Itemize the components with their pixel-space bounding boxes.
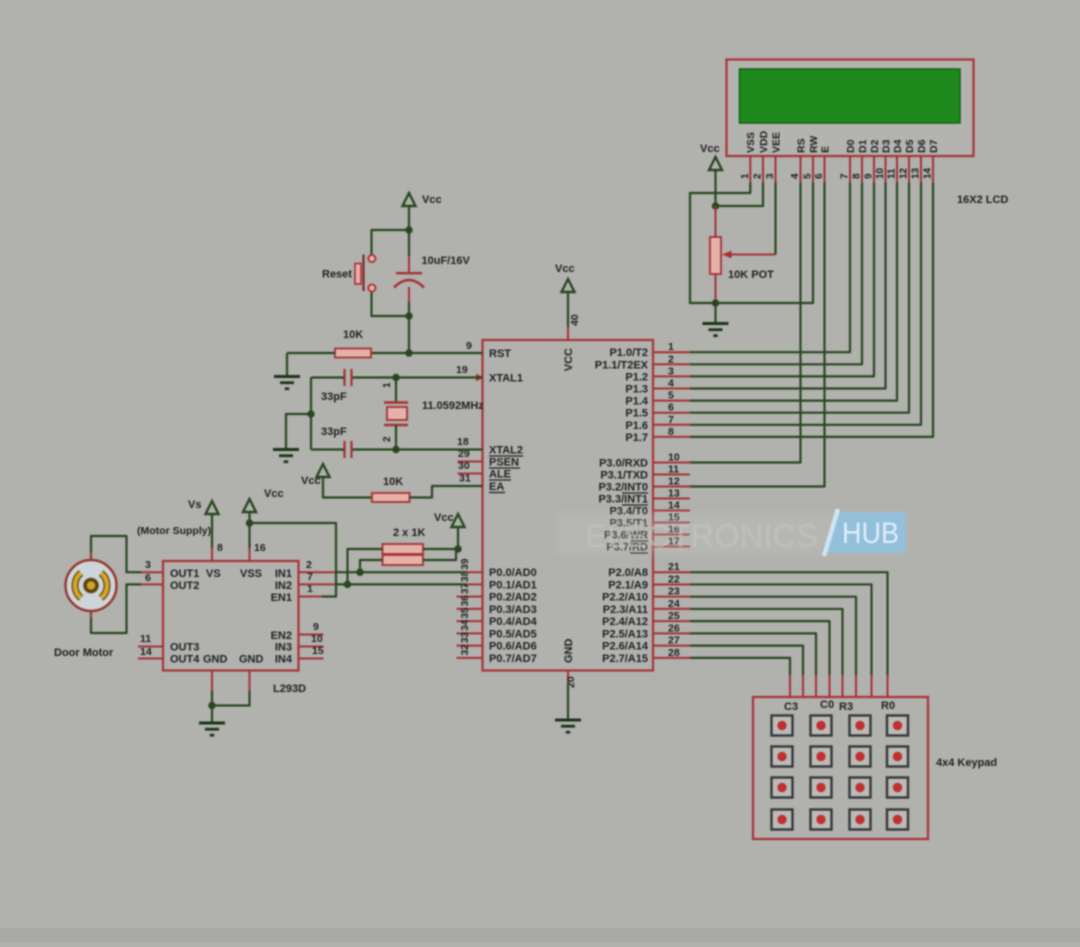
svg-text:6: 6 (668, 402, 674, 414)
svg-text:Vcc: Vcc (434, 512, 454, 524)
node XTAL2 junction (392, 446, 399, 453)
wire caps junction to ground (286, 414, 311, 448)
wire VEE pin 3 to wiper (774, 183, 776, 255)
U1 pin 33 P0.6/AD6 (457, 645, 483, 647)
keypad button row 2 col 1 (772, 747, 793, 767)
svg-text:P2.4/A12: P2.4/A12 (602, 616, 648, 628)
svg-text:34: 34 (460, 619, 471, 631)
U2 pin 9 EN2 stub (299, 634, 324, 636)
wire P2.1/A9 to keypad (690, 584, 872, 675)
svg-text:2 x 1K: 2 x 1K (393, 527, 425, 539)
svg-text:8: 8 (852, 173, 863, 179)
U1 pin 2 P1.1/T2EX (653, 363, 690, 365)
keypad pin stub 7 (802, 675, 804, 697)
svg-text:6: 6 (145, 572, 151, 584)
svg-text:(Motor Supply): (Motor Supply) (137, 525, 211, 537)
U1 pin 29 PSEN stub (458, 461, 483, 463)
U1 pin 36 P0.3/AD3 (457, 608, 483, 610)
svg-text:10uF/16V: 10uF/16V (422, 255, 471, 267)
LCD pin 4 RS (800, 156, 802, 183)
wire P1.5 to LCD D5 (690, 183, 909, 413)
LCD pin 6 E (824, 156, 826, 183)
wire P1.7 to LCD D7 (690, 183, 933, 437)
motor driver U2 L293D body (163, 561, 299, 671)
svg-text:P0.6/AD6: P0.6/AD6 (489, 641, 537, 653)
svg-text:10: 10 (668, 452, 680, 464)
U2 pin 6 OUT2 stub (141, 583, 163, 585)
U1 pin 4 P1.3 (653, 388, 690, 390)
svg-text:19: 19 (456, 364, 468, 376)
wire GND pins join (211, 691, 213, 706)
keypad button row 4 col 1 (772, 810, 793, 830)
wire VSS to Vcc node (248, 512, 250, 548)
svg-text:D2: D2 (869, 139, 881, 153)
keypad pin stub 2 (871, 675, 873, 697)
svg-text:5: 5 (803, 173, 814, 179)
node reset bottom junction (405, 312, 412, 319)
svg-text:P1.4: P1.4 (625, 396, 649, 408)
svg-text:P0.5/AD5: P0.5/AD5 (489, 628, 537, 640)
svg-text:35: 35 (460, 607, 471, 619)
wire R3 right lead (423, 548, 458, 550)
node POT bottom junction (712, 299, 719, 306)
svg-text:P1.0/T2: P1.0/T2 (609, 347, 648, 359)
svg-text:P2.7/A15: P2.7/A15 (602, 653, 648, 665)
wire P2.6/A14 to keypad (690, 646, 803, 675)
svg-text:10K: 10K (343, 329, 363, 341)
U1 pin 26 P2.5/A13 (653, 632, 690, 634)
svg-text:2: 2 (668, 353, 674, 365)
wire P1.0/T2 to LCD D0 (690, 183, 850, 353)
U1 pin 28 P2.7/A15 (653, 657, 690, 659)
svg-text:VS: VS (206, 568, 221, 580)
svg-text:C3: C3 (784, 701, 798, 713)
svg-text:Reset: Reset (322, 269, 352, 281)
wire P2.5/A13 to keypad (690, 633, 816, 675)
svg-text:18: 18 (457, 436, 469, 448)
svg-text:D7: D7 (928, 139, 940, 153)
svg-text:8: 8 (668, 426, 674, 438)
svg-text:7: 7 (668, 414, 674, 426)
capacitor C2 33pF (352, 376, 396, 378)
U1 pin 32 P0.7/AD7 (457, 657, 483, 659)
U1 pin 24 P2.3/A11 (653, 608, 690, 610)
node VSS Vcc junction (246, 519, 253, 526)
svg-text:ELECTRONICS: ELECTRONICS (585, 518, 818, 554)
svg-text:P3.3/INT1: P3.3/INT1 (598, 494, 648, 506)
8051 microcontroller U1 body (483, 340, 654, 671)
svg-text:IN1: IN1 (275, 568, 292, 580)
U2 pin 11 OUT3 stub (138, 646, 163, 648)
svg-text:P2.5/A13: P2.5/A13 (602, 628, 648, 640)
svg-text:P0.3/AD3: P0.3/AD3 (489, 604, 537, 616)
U1 pin 16 P3.6/WR (653, 534, 690, 536)
svg-text:39: 39 (460, 558, 471, 570)
resistor R3 1K (383, 544, 424, 554)
svg-text:RST: RST (489, 348, 511, 360)
keypad button row 3 col 4 (887, 778, 908, 798)
wire GND net down (567, 683, 569, 719)
U1 pin 37 P0.2/AD2 (457, 596, 483, 598)
U1 pin 10 P3.0/RXD (653, 462, 690, 464)
svg-text:GND: GND (239, 654, 264, 666)
Vcc symbol above U1 (562, 279, 575, 292)
wire POT node to ground (714, 303, 716, 322)
svg-text:10K POT: 10K POT (728, 269, 774, 281)
svg-text:D3: D3 (880, 139, 892, 153)
wire IN1 to P0.0 (335, 571, 467, 573)
wire Vcc to R2 (323, 477, 372, 498)
keypad button row 3 col 1 (772, 778, 793, 798)
ground symbol below U2 (199, 722, 225, 725)
svg-text:VCC: VCC (563, 348, 575, 371)
keypad pin stub 6 (815, 675, 817, 697)
svg-text:3: 3 (765, 173, 776, 179)
crystal X1 11.0592MHz (395, 378, 397, 403)
wire Vcc to reset node (408, 206, 410, 230)
svg-text:13: 13 (668, 488, 680, 500)
svg-text:Vcc: Vcc (555, 263, 575, 275)
svg-text:XTAL2: XTAL2 (489, 445, 523, 457)
ground symbol below U1 (555, 719, 581, 722)
svg-text:IN2: IN2 (275, 580, 292, 592)
Vcc symbol above reset circuit (403, 193, 416, 206)
resistor R2 10K EA (372, 493, 410, 502)
svg-text:IN3: IN3 (275, 642, 292, 654)
svg-text:27: 27 (668, 635, 680, 647)
resistor R1 10K pulldown (371, 352, 409, 354)
svg-text:15: 15 (312, 645, 324, 657)
svg-text:Vcc: Vcc (301, 475, 321, 487)
wire XTAL1 net (396, 376, 483, 378)
LCD pin 13 D6 (920, 156, 922, 183)
U1 pin 23 P2.2/A10 (653, 596, 690, 598)
svg-text:36: 36 (460, 595, 471, 607)
svg-text:P3.2/INT0: P3.2/INT0 (598, 482, 648, 494)
svg-text:32: 32 (460, 644, 471, 656)
svg-text:13: 13 (911, 167, 922, 179)
LCD pin 12 D5 (908, 156, 910, 183)
svg-text:12: 12 (899, 167, 910, 179)
U1 pin 34 P0.5/AD5 (457, 632, 483, 634)
svg-text:P1.1/T2EX: P1.1/T2EX (595, 359, 649, 371)
svg-text:OUT3: OUT3 (170, 642, 199, 654)
wire P2.3/A11 to keypad (690, 609, 843, 675)
node RST junction (405, 349, 412, 356)
U1 pin 11 P3.1/TXD (653, 474, 690, 476)
svg-text:HUB: HUB (842, 517, 899, 550)
keypad button row 3 col 2 (811, 778, 832, 798)
U1 XTAL1 pin label and clock arrow (476, 374, 484, 382)
node pullups junction (454, 545, 461, 552)
U1 pin 9 RST stub (458, 352, 483, 354)
svg-text:P1.6: P1.6 (625, 420, 648, 432)
LCD pin 2 VDD (762, 156, 764, 183)
push button SW1 Reset (355, 264, 361, 285)
U1 pin 20 GND stub (567, 671, 569, 684)
U1 pin 8 P1.7 (653, 436, 690, 438)
svg-text:RW: RW (808, 136, 820, 153)
svg-text:D0: D0 (845, 139, 857, 153)
svg-text:21: 21 (668, 561, 680, 573)
wire P2.2/A10 to keypad (690, 597, 856, 675)
svg-text:9: 9 (864, 173, 875, 179)
LCD pin 5 RW (812, 156, 814, 183)
wire push button bottom to node (372, 293, 410, 317)
svg-text:28: 28 (668, 647, 680, 659)
U2 pin 14 OUT4 stub (138, 658, 163, 660)
keypad button row 2 col 4 (887, 747, 908, 767)
svg-text:Vcc: Vcc (422, 194, 442, 206)
svg-text:P2.0/A8: P2.0/A8 (608, 567, 648, 579)
wire P2.4/A12 to keypad (690, 621, 830, 675)
svg-text:P3.0/RXD: P3.0/RXD (599, 458, 648, 470)
svg-text:P0.0/AD0: P0.0/AD0 (489, 567, 537, 579)
wire IN2 to P0.1 (335, 583, 467, 585)
U2 pin 7 IN2 stub (299, 583, 336, 585)
capacitor C1 10uF/16V (408, 230, 410, 256)
svg-text:33pF: 33pF (321, 426, 347, 438)
U2 pin 1 EN1 stub (299, 596, 323, 598)
LCD pin 8 D1 (861, 156, 863, 183)
svg-text:VSS: VSS (240, 568, 262, 580)
keypad pin stub 3 (855, 675, 857, 697)
svg-text:P1.7: P1.7 (625, 432, 648, 444)
Vcc symbol for pullups (452, 514, 465, 527)
svg-text:11: 11 (140, 633, 151, 645)
U1 pin 12 P3.2/INT0 (653, 486, 690, 488)
svg-text:P2.3/A11: P2.3/A11 (603, 604, 648, 616)
node R4 to IN1 junction (356, 569, 363, 576)
wire to push button top (372, 230, 410, 255)
svg-text:RS: RS (795, 138, 807, 153)
svg-text:30: 30 (458, 460, 470, 472)
node reset top junction (405, 226, 412, 233)
U2 pin 15 IN4 stub (299, 658, 324, 660)
U2 pin 16 VSS stub (249, 548, 251, 561)
U2 pin 5 GND stub (249, 671, 251, 692)
svg-text:33pF: 33pF (321, 391, 347, 403)
svg-text:1: 1 (668, 341, 674, 353)
wire caps common vertical (310, 378, 312, 450)
svg-text:EN1: EN1 (271, 592, 292, 604)
motor M1 door motor (90, 552, 92, 560)
watermark band (556, 513, 908, 555)
svg-text:P0.2/AD2: P0.2/AD2 (489, 592, 537, 604)
U1 pin 21 P2.0/A8 (653, 571, 690, 573)
svg-text:Vcc: Vcc (264, 488, 284, 500)
svg-text:12: 12 (668, 476, 680, 488)
svg-text:11.0592MHz: 11.0592MHz (422, 400, 484, 412)
svg-text:1: 1 (382, 382, 393, 388)
wire RW pin 5 to ground node (716, 183, 814, 304)
svg-text:10: 10 (875, 167, 886, 179)
svg-text:Vs: Vs (188, 499, 201, 511)
svg-text:26: 26 (668, 622, 680, 634)
svg-text:22: 22 (668, 573, 680, 585)
keypad button row 1 col 1 (772, 716, 793, 736)
wire P1.2 to LCD D2 (690, 183, 874, 377)
svg-text:P2.6/A14: P2.6/A14 (602, 641, 649, 653)
keypad button row 2 col 2 (811, 747, 832, 767)
svg-text:6: 6 (814, 173, 825, 179)
U2 pin 4 GND stub (211, 671, 213, 692)
svg-text:4: 4 (668, 378, 674, 390)
svg-text:PSEN: PSEN (489, 457, 519, 469)
svg-text:24: 24 (668, 598, 680, 610)
keypad body 4x4 (753, 697, 928, 839)
svg-text:R0: R0 (881, 700, 895, 712)
wire Vcc to pullups node (457, 527, 459, 549)
wire VSS pin 1 to ground loop (690, 183, 750, 304)
svg-text:P1.3: P1.3 (625, 384, 648, 396)
svg-text:10K: 10K (383, 476, 403, 488)
capacitor C3 33pF (352, 448, 396, 450)
LCD pin 1 VSS (749, 156, 751, 183)
keypad button row 4 col 3 (850, 810, 871, 830)
keypad pin stub 5 (829, 675, 831, 697)
bottom shade (0, 928, 1080, 942)
wire VS to Vs arrow (211, 514, 213, 548)
wire VDD pin 2 to node (716, 183, 764, 207)
U1 pin 15 P3.5/T1 (653, 522, 690, 524)
LCD pin 3 VEE (775, 156, 777, 183)
LCD pin 11 D4 (896, 156, 898, 183)
svg-text:P1.5: P1.5 (625, 408, 648, 420)
wire R3 to P0.1 net (348, 549, 383, 584)
svg-text:2: 2 (306, 559, 312, 571)
Vcc symbol for EA (317, 464, 330, 477)
keypad pin stub 1 (887, 675, 889, 697)
svg-text:23: 23 (668, 586, 680, 598)
svg-text:ALE: ALE (489, 469, 511, 481)
U1 pin 7 P1.6 (653, 424, 690, 426)
svg-text:11: 11 (887, 168, 898, 179)
keypad button row 1 col 2 (811, 716, 832, 736)
RV1 wiper arrow to VEE (729, 254, 776, 256)
svg-text:10: 10 (311, 633, 323, 645)
U2 pin 10 IN3 stub (299, 646, 324, 648)
wire P1.4 to LCD D4 (690, 183, 897, 401)
svg-text:4: 4 (790, 173, 801, 179)
svg-text:14: 14 (668, 500, 680, 512)
keypad button row 4 col 2 (811, 810, 832, 830)
svg-text:5: 5 (668, 390, 674, 402)
wire P1.6 to LCD D6 (690, 183, 921, 425)
LCD pin 7 D0 (849, 156, 851, 183)
LCD pin 9 D2 (873, 156, 875, 183)
watermark HUB box (822, 512, 906, 553)
svg-text:P2.2/A10: P2.2/A10 (602, 592, 648, 604)
resistor R4 1K (383, 555, 424, 565)
svg-text:7: 7 (840, 173, 851, 179)
svg-text:D4: D4 (892, 139, 904, 153)
wire R4 to P0.0 net (360, 560, 383, 572)
svg-text:33: 33 (460, 632, 471, 644)
LCD module body 16x2 (727, 60, 974, 157)
wire R4 right lead (423, 549, 456, 560)
Vs motor supply symbol (206, 501, 219, 514)
svg-text:31: 31 (459, 473, 471, 485)
svg-text:D5: D5 (904, 139, 916, 153)
svg-text:3: 3 (145, 559, 151, 571)
wire VCC net to Vcc arrow (567, 292, 569, 327)
svg-text:2: 2 (382, 436, 393, 442)
wire Vcc node to EN1 (250, 523, 337, 597)
U2 pin 8 VS stub (211, 548, 213, 561)
U1 pin 17 P3.7/RD (653, 546, 690, 548)
svg-text:D6: D6 (916, 139, 928, 153)
svg-text:2: 2 (753, 173, 764, 179)
svg-text:P2.1/A9: P2.1/A9 (608, 579, 648, 591)
wire P1.1/T2EX to LCD D1 (690, 183, 862, 365)
wire P3.2 to LCD E (690, 183, 825, 487)
svg-text:4x4 Keypad: 4x4 Keypad (936, 757, 997, 769)
keypad pin stub 8 (789, 675, 791, 697)
svg-text:OUT1: OUT1 (170, 568, 199, 580)
wire Vcc to VDD node (714, 170, 716, 206)
potentiometer RV1 10K POT (715, 206, 717, 237)
U1 pin 40 VCC stub (567, 327, 569, 340)
svg-text:9: 9 (313, 621, 319, 633)
svg-text:XTAL1: XTAL1 (489, 373, 523, 385)
svg-text:VDD: VDD (758, 130, 770, 153)
ground symbol below R1 (274, 375, 300, 378)
wire P3.0 to LCD RS (690, 183, 801, 463)
U1 pin 3 P1.2 (653, 375, 690, 377)
keypad button row 1 col 3 (850, 716, 871, 736)
svg-text:25: 25 (668, 610, 680, 622)
LCD pin 14 D7 (932, 156, 934, 183)
wire to ground (211, 706, 213, 723)
svg-text:GND: GND (563, 639, 575, 664)
svg-text:P0.1/AD1: P0.1/AD1 (489, 579, 537, 591)
U1 pin 27 P2.6/A14 (653, 645, 690, 647)
U1 pin 5 P1.4 (653, 400, 690, 402)
ground symbol below POT (703, 322, 729, 325)
wire OUT2 to motor (91, 584, 141, 633)
svg-text:R3: R3 (839, 701, 853, 713)
svg-text:C0: C0 (820, 699, 834, 711)
svg-text:EN2: EN2 (271, 630, 292, 642)
node caps junction (307, 410, 314, 417)
U1 pin 25 P2.4/A12 (653, 620, 690, 622)
U2 pin 3 OUT1 stub (141, 571, 163, 573)
node U2 ground junction (208, 702, 215, 709)
Vcc symbol near LCD (709, 157, 722, 170)
svg-text:E: E (819, 146, 831, 153)
U1 pin 1 P1.0/T2 (653, 351, 690, 353)
svg-text:Door Motor: Door Motor (54, 647, 114, 659)
node VDD junction (712, 202, 719, 209)
svg-text:D1: D1 (857, 139, 869, 153)
svg-text:7: 7 (307, 571, 313, 583)
svg-text:P1.2: P1.2 (625, 371, 648, 383)
wire P1.3 to LCD D3 (690, 183, 886, 389)
ground symbol below caps (273, 448, 299, 451)
node R3 to IN2 junction (344, 581, 351, 588)
svg-text:OUT4: OUT4 (170, 654, 200, 666)
svg-text:P0.4/AD4: P0.4/AD4 (489, 616, 538, 628)
keypad button row 3 col 3 (850, 778, 871, 798)
LCD green screen (740, 69, 961, 123)
keypad button row 2 col 3 (850, 747, 871, 767)
wire P2.7/A15 to keypad (690, 658, 790, 675)
svg-text:40: 40 (569, 314, 581, 326)
svg-text:OUT2: OUT2 (170, 580, 199, 592)
svg-text:8: 8 (217, 542, 223, 554)
svg-text:20: 20 (565, 676, 577, 688)
